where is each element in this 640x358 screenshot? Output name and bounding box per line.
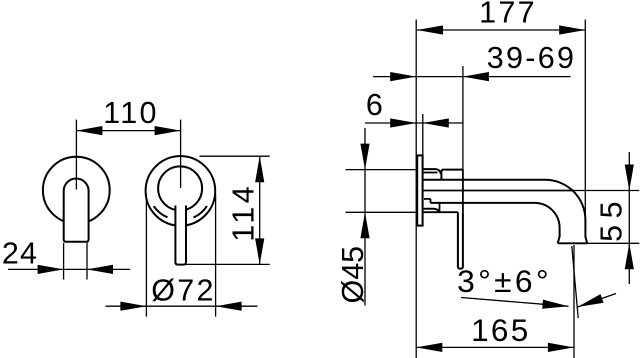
base sleeve bottom inner edge bbox=[423, 209, 440, 212]
wall line bbox=[415, 20, 417, 358]
angle leader left with arrow bbox=[461, 298, 569, 307]
svg-text:39-69: 39-69 bbox=[487, 41, 577, 75]
dimension line 110 bbox=[76, 130, 180, 132]
extension line 39-69 to cartridge face bbox=[462, 66, 464, 170]
dimension line 114 bbox=[259, 156, 261, 264]
svg-text:3°±6°: 3°±6° bbox=[457, 263, 552, 299]
extension lines 24 bbox=[63, 243, 65, 280]
spout bottom edge and inner curve bbox=[431, 203, 560, 243]
base ring top outer edge bbox=[423, 169, 441, 174]
base sleeve top inner edge bbox=[423, 172, 438, 174]
extension line 55 top (seam level) bbox=[574, 190, 639, 192]
base ring bottom outer edge / body bottom edge bbox=[423, 211, 458, 213]
dimension line 165 bbox=[416, 346, 574, 348]
center line extension into right circle (110 dim, right) bbox=[180, 120, 182, 188]
dimension line 24 with outside arrows bbox=[8, 268, 130, 270]
aerator outlet rim bbox=[558, 242, 587, 244]
svg-text:55: 55 bbox=[594, 195, 628, 242]
spout top edge and outer curve bbox=[423, 180, 587, 244]
extension lines O72 bbox=[145, 194, 147, 317]
dimension line 55 with outside arrows bbox=[628, 152, 630, 284]
lever handle side view bbox=[458, 212, 463, 269]
svg-text:177: 177 bbox=[479, 0, 537, 29]
handle grip (rounded-top bar) of left front view bbox=[64, 179, 89, 242]
lever bar of mixer trim front view bbox=[175, 206, 186, 265]
dimension line O72 with outside arrows bbox=[106, 305, 258, 307]
cartridge collar outline bbox=[441, 170, 463, 180]
svg-text:6: 6 bbox=[366, 88, 385, 122]
svg-text:165: 165 bbox=[471, 312, 530, 348]
svg-text:Ø72: Ø72 bbox=[151, 274, 216, 308]
water stream tilted line 3 deg bbox=[572, 246, 578, 318]
extension line 55 bottom (outlet level) bbox=[587, 242, 639, 244]
water stream vertical line bbox=[573, 245, 575, 358]
extension lines O45 bbox=[346, 169, 416, 171]
dash arc lower-left between circles bbox=[154, 206, 168, 217]
outer circle of mixer trim front view bbox=[146, 156, 216, 226]
dimension line O45 with outside arrows bbox=[364, 128, 366, 306]
dimension line 39-69 with outside arrows bbox=[373, 76, 571, 78]
inner circle of mixer trim front view bbox=[158, 166, 202, 210]
svg-text:114: 114 bbox=[227, 183, 261, 242]
extension line right of 177 at spout tip bbox=[584, 20, 586, 221]
svg-text:Ø45: Ø45 bbox=[336, 246, 370, 304]
extension lines 114 bbox=[200, 155, 270, 157]
angle leader right with arrow bbox=[578, 294, 617, 308]
dash arc lower-right between circles bbox=[194, 206, 207, 218]
outer circle of left handle front view bbox=[43, 157, 110, 224]
extension line 6 at plate front bbox=[422, 114, 424, 155]
center line extension into left circle (110 dim, left) bbox=[75, 120, 77, 190]
step under spout bbox=[439, 203, 441, 212]
svg-text:110: 110 bbox=[103, 96, 159, 130]
cover seam line along spout bbox=[423, 190, 574, 192]
dimension line 177 bbox=[417, 29, 585, 31]
dimension line 6 with outside arrows bbox=[365, 122, 463, 124]
inner stub lines at spout underside left end bbox=[424, 198, 431, 200]
body right face bbox=[462, 170, 464, 213]
escutcheon plate side view bbox=[417, 155, 422, 225]
svg-text:24: 24 bbox=[2, 237, 38, 271]
